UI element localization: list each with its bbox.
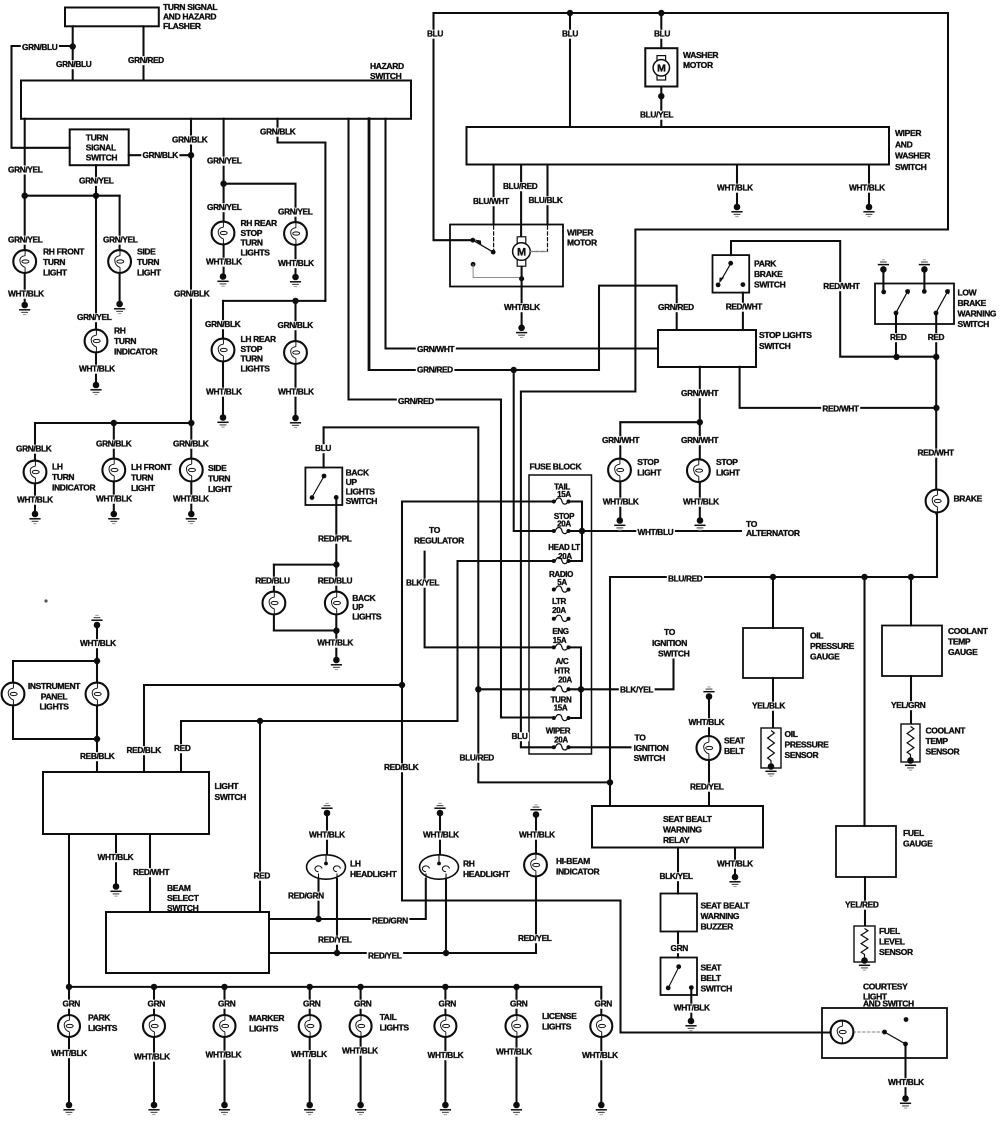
wire BLU/RED rail from brake line — [610, 513, 937, 806]
svg-text:RED/BLK: RED/BLK — [384, 762, 419, 772]
wire ENG-ACHTR-TURN bracket — [569, 647, 582, 718]
svg-text:WHT/BLK: WHT/BLK — [603, 497, 639, 507]
wire hazard to RH rear stop lamp1 — [223, 119, 225, 274]
svg-text:SWITCH: SWITCH — [701, 984, 733, 994]
ground wiper switch 2 — [863, 204, 874, 217]
park brake contact dots — [716, 261, 746, 287]
svg-text:WHT/BLK: WHT/BLK — [278, 387, 314, 397]
wire stop switch GRN/WHT out — [699, 367, 701, 518]
svg-text:LIGHTS: LIGHTS — [88, 1023, 118, 1033]
svg-text:HAZARD: HAZARD — [370, 61, 404, 71]
wire buzzer to seat belt switch GRN — [677, 932, 679, 958]
wire BLU/RED drop to wiper motor — [520, 165, 522, 244]
wiper motor right lead — [530, 251, 547, 253]
wire LH headlight left pin — [317, 879, 319, 919]
label wire label GRN/BLK — [141, 151, 179, 160]
label wire label GRN/RED — [416, 366, 455, 375]
svg-text:LIGHTS: LIGHTS — [39, 702, 69, 712]
wire park/marker/tail/license lamp drop 2 — [153, 987, 155, 1103]
svg-text:WHT/BLK: WHT/BLK — [504, 302, 540, 312]
svg-text:LIGHT: LIGHT — [208, 484, 233, 494]
wiper and washer switch box — [467, 127, 890, 165]
wire GRN/WHT to stop lights switch — [386, 119, 659, 349]
label wire label GRN/RED — [657, 303, 696, 312]
label wire label BLU/RED — [458, 754, 495, 763]
courtesy light and switch box — [822, 1008, 947, 1058]
svg-text:WHT/BLK: WHT/BLK — [80, 638, 116, 648]
label wire label WHT/BLK — [602, 498, 641, 507]
svg-text:RH REAR: RH REAR — [241, 218, 277, 228]
wire TAIL-STOP-HEADLT bracket — [569, 502, 583, 562]
label wire label GRN/WHT — [601, 436, 641, 445]
svg-text:LIGHTS: LIGHTS — [542, 1022, 572, 1032]
backup switch contact dots — [310, 474, 339, 500]
svg-text:INSTRUMENT: INSTRUMENT — [28, 681, 81, 691]
label wire label RED — [889, 333, 908, 342]
fuse A/C HTR 20A — [552, 686, 571, 692]
label wire label BLU — [653, 30, 672, 39]
svg-text:GRN/BLK: GRN/BLK — [16, 444, 52, 454]
stop light lamp 2 — [687, 459, 710, 482]
low brake contact dots — [881, 289, 950, 315]
label wire label WHT/BLK — [95, 495, 134, 504]
svg-text:SIDE: SIDE — [208, 463, 227, 473]
svg-text:SENSOR: SENSOR — [926, 747, 960, 757]
label wire label BLU/WHT — [472, 197, 511, 206]
wire fuel gauge feed — [863, 577, 865, 826]
courtesy lamp — [831, 1021, 854, 1044]
svg-text:GRN: GRN — [303, 999, 321, 1009]
label wire label WHT/BLK — [887, 1078, 926, 1087]
wire hazard to RH front turn — [24, 119, 26, 302]
ground stop light 2 — [694, 517, 705, 530]
seat belt switch diagonal — [670, 969, 678, 986]
park brake arrowhead — [719, 277, 724, 283]
label wire label WHT/BLK — [503, 303, 542, 312]
label wire label YEL/RED — [844, 901, 880, 910]
label wire label RED/BLU — [317, 577, 354, 586]
svg-text:GRN/BLK: GRN/BLK — [205, 319, 241, 329]
label wire label GRN 4 — [302, 1000, 322, 1009]
node backup RED/PPL — [333, 561, 339, 567]
node A/C HTR BLK/YEL — [578, 686, 584, 692]
svg-text:LIGHT: LIGHT — [215, 781, 240, 791]
svg-text:TURN: TURN — [43, 257, 65, 267]
wire backup lamp1 drop — [273, 565, 275, 631]
RH front turn light lamp — [13, 250, 36, 273]
svg-text:RED/WHT: RED/WHT — [918, 448, 955, 458]
courtesy lamp to switch dashed — [853, 1031, 883, 1033]
svg-text:BELT: BELT — [701, 973, 722, 983]
park/marker/tail/license lamp 3 — [214, 1015, 236, 1037]
label wire label GRN/YEL — [277, 208, 314, 217]
seat bealt warning relay box — [592, 806, 763, 848]
svg-text:RED/WHT: RED/WHT — [726, 302, 763, 312]
wire RED/YEL headlight bus — [269, 877, 536, 954]
svg-text:SENSOR: SENSOR — [785, 750, 819, 760]
svg-text:GAUGE: GAUGE — [948, 647, 978, 657]
wire stop light 1 branch — [620, 422, 700, 517]
wire BLK/YEL to ignition switch — [581, 660, 674, 690]
wire A/C HTR fuse left — [478, 688, 554, 690]
svg-text:GRN/WHT: GRN/WHT — [602, 435, 639, 445]
svg-text:WHT/BLK: WHT/BLK — [317, 638, 353, 648]
LH headlight — [307, 855, 346, 879]
ground stop light 1 — [614, 517, 625, 530]
label wire label WHT/BLK — [716, 184, 755, 193]
label wire label WHT/BLK — [848, 184, 887, 193]
svg-text:SWITCH: SWITCH — [346, 496, 378, 506]
fuse ENG 15A — [552, 644, 571, 650]
node STOP fuse WHT/BLU — [579, 528, 585, 534]
svg-text:GRN: GRN — [63, 999, 81, 1009]
brake lamp — [926, 490, 949, 513]
svg-text:TAIL: TAIL — [380, 1012, 397, 1022]
label wire label GRN 7 — [509, 1000, 529, 1009]
wiper motor switch arrowhead — [475, 240, 482, 246]
svg-text:GRN/BLK: GRN/BLK — [278, 320, 314, 330]
low brake switch diagonal 1 — [897, 294, 907, 311]
label wire label BLK/YEL — [658, 872, 694, 881]
wiper motor contact dots — [470, 238, 524, 282]
svg-text:YEL/BLK: YEL/BLK — [752, 701, 785, 711]
wire BLU to washer motor — [660, 13, 662, 48]
svg-text:LH: LH — [350, 859, 361, 869]
low brake switch diagonal 2 — [937, 294, 947, 311]
svg-text:GAUGE: GAUGE — [810, 652, 840, 662]
svg-text:WHT/BLK: WHT/BLK — [206, 387, 242, 397]
wire backup lamps bottom link — [274, 629, 337, 631]
svg-text:RED/WHT: RED/WHT — [133, 867, 170, 877]
svg-text:M: M — [517, 247, 526, 259]
fuel level sensor resistor — [854, 926, 875, 962]
label wire label GRN 3 — [217, 1000, 237, 1009]
label wire label BLU/RED — [667, 575, 704, 584]
wire backup switch out RED/PPL — [335, 500, 337, 659]
svg-text:TURN SIGNAL: TURN SIGNAL — [163, 2, 217, 12]
wire BLU/BLK dash — [532, 226, 548, 252]
label wire label YEL/GRN — [890, 701, 927, 710]
node RH rear branch — [220, 181, 226, 187]
wire GRN/RED to stop lights switch vertical — [368, 119, 371, 370]
svg-text:BELT: BELT — [724, 746, 745, 756]
wire BLU/WHT drop — [493, 165, 495, 225]
svg-text:GRN/RED: GRN/RED — [128, 55, 164, 65]
ground oil pressure sensor — [765, 763, 776, 776]
node backup WHT/BLK — [333, 628, 339, 634]
turn signal and hazard flasher box — [65, 8, 159, 27]
svg-text:LIGHTS: LIGHTS — [241, 364, 271, 374]
svg-text:WIPER: WIPER — [567, 228, 593, 238]
svg-text:GRN: GRN — [671, 943, 689, 953]
svg-text:RED/BLU: RED/BLU — [255, 576, 290, 586]
fuse RADIO 5A — [552, 586, 571, 592]
svg-text:STOP: STOP — [241, 228, 263, 238]
hi-beam indicator lamp — [524, 854, 547, 877]
svg-text:LTR: LTR — [552, 597, 566, 606]
svg-text:HEAD LT: HEAD LT — [548, 543, 580, 552]
wire wiper motor output to ground — [521, 266, 523, 324]
svg-text:GRN/BLK: GRN/BLK — [172, 134, 208, 144]
label wire label GRN/BLU — [21, 43, 59, 52]
svg-text:WHT/BLK: WHT/BLK — [173, 494, 209, 504]
svg-text:LICENSE: LICENSE — [542, 1011, 577, 1021]
label wire label WHT/BLK — [205, 388, 244, 397]
node low brake RED 2 — [933, 354, 939, 360]
ground side turn — [114, 301, 125, 314]
ground LH turn indicator — [29, 511, 40, 524]
label wire label RED/WHT — [132, 868, 171, 877]
node RED/YEL LH pin — [334, 950, 340, 956]
svg-text:TURN: TURN — [86, 133, 108, 143]
svg-text:WHT/BLK: WHT/BLK — [428, 1050, 464, 1060]
svg-text:WARNING: WARNING — [958, 309, 997, 319]
node rail 1 — [66, 984, 72, 990]
svg-text:WHT/BLK: WHT/BLK — [278, 258, 314, 268]
wire turn signal switch GRN/BLK — [129, 154, 191, 156]
RH rear stop turn lamp 1 — [212, 222, 235, 245]
LH rear stop turn lamp 2 — [284, 341, 307, 364]
park/marker/tail/license lamp 2 — [143, 1015, 165, 1037]
label wire label RED/BLK — [383, 763, 420, 772]
svg-text:WIPER: WIPER — [546, 727, 571, 736]
wire GRN/RED branch to STOP fuse — [514, 370, 554, 531]
label wire label BLU/BLK — [527, 196, 564, 205]
node GRN/BLU junction — [70, 43, 76, 49]
inverted ground seat belt — [703, 687, 714, 700]
svg-text:WHT/BLU: WHT/BLU — [638, 527, 674, 537]
svg-text:RED/WHT: RED/WHT — [823, 281, 860, 291]
svg-text:UP: UP — [346, 477, 358, 487]
label wire label RED/WHT — [821, 405, 860, 414]
svg-text:RH FRONT: RH FRONT — [43, 247, 85, 257]
label wire label RED/BLU — [254, 577, 291, 586]
label wire label GRN/YEL — [206, 203, 243, 212]
svg-text:RED/YEL: RED/YEL — [518, 933, 552, 943]
svg-text:OIL: OIL — [810, 631, 823, 641]
node BLU rail 2 — [658, 10, 664, 16]
node LH bus right — [188, 420, 194, 426]
ground RH rear 1 — [217, 273, 228, 286]
svg-text:REGULATOR: REGULATOR — [414, 536, 464, 546]
svg-text:INDICATOR: INDICATOR — [556, 867, 599, 877]
fuse TAIL 15A — [552, 498, 571, 504]
park/marker/tail/license lamp 4 — [299, 1015, 321, 1037]
label wire label RED — [173, 744, 192, 753]
svg-text:GRN/YEL: GRN/YEL — [8, 235, 43, 245]
wire BLU main net — [434, 13, 949, 747]
label wire label BLU — [314, 444, 333, 453]
label wire label WHT/BLK — [518, 831, 557, 840]
svg-text:TURN: TURN — [52, 472, 74, 482]
wire LH lamps bus — [35, 422, 191, 424]
svg-text:WHT/BLK: WHT/BLK — [849, 183, 885, 193]
wire GRN/BLK hazard drop — [190, 119, 192, 423]
svg-text:RELAY: RELAY — [663, 835, 690, 845]
ground RH turn indicator — [90, 382, 101, 395]
fuse block box — [529, 475, 592, 754]
label wire label RED/WHT — [822, 282, 861, 291]
svg-text:WHT/BLK: WHT/BLK — [8, 289, 44, 299]
label wire label GRN/YEL — [76, 313, 113, 322]
svg-text:BRAKE: BRAKE — [954, 494, 983, 504]
park/marker/tail/license lamp 1 — [58, 1015, 80, 1037]
svg-text:GRN/BLK: GRN/BLK — [96, 439, 132, 449]
svg-text:WHT/BLK: WHT/BLK — [309, 830, 345, 840]
wire oil gauge feed — [772, 577, 774, 628]
svg-text:WIPER: WIPER — [895, 128, 921, 138]
label wire label WHT/BLK — [422, 831, 461, 840]
svg-text:WHT/BLK: WHT/BLK — [51, 1048, 87, 1058]
wire lamp rail — [69, 987, 601, 1103]
ground bottom lamp 8 — [596, 1102, 607, 1115]
svg-text:SEAT: SEAT — [724, 736, 746, 746]
svg-text:HI-BEAM: HI-BEAM — [556, 856, 590, 866]
svg-text:INDICATOR: INDICATOR — [52, 483, 95, 493]
svg-text:WHT/BLK: WHT/BLK — [674, 1003, 710, 1013]
svg-text:WHT/BLK: WHT/BLK — [717, 859, 753, 869]
park brake switch diagonal — [722, 265, 731, 280]
fuse LTR 20A — [552, 615, 571, 621]
node low brake RED 1 — [893, 354, 899, 360]
wire instrument panel loop — [13, 661, 97, 739]
label wire label GRN/BLK — [15, 445, 53, 454]
svg-text:RED/GRN: RED/GRN — [372, 916, 408, 926]
svg-text:WHT/BLK: WHT/BLK — [79, 364, 115, 374]
svg-text:COOLANT: COOLANT — [926, 726, 967, 736]
wire low brake RED out 2 to brake lamp — [935, 313, 937, 514]
label wire label RED/GRN — [287, 892, 326, 901]
low brake warning switch box — [875, 284, 954, 325]
svg-text:TO: TO — [429, 525, 441, 535]
wire seat belt switch to ground — [690, 988, 692, 1019]
svg-text:BLU: BLU — [654, 29, 670, 39]
label wire label YEL/BLK — [751, 702, 787, 711]
ground wiper switch 1 — [731, 204, 742, 217]
svg-text:LEVEL: LEVEL — [879, 937, 905, 947]
svg-text:STOP: STOP — [716, 457, 738, 467]
svg-text:RED/BLU: RED/BLU — [318, 576, 353, 586]
label wire label WHT/BLK — [78, 365, 117, 374]
wire flasher left lead — [72, 26, 74, 80]
park/marker/tail/license lamp 7 — [506, 1015, 528, 1037]
svg-text:HEADLIGHT: HEADLIGHT — [350, 869, 398, 879]
svg-text:ALTERNATOR: ALTERNATOR — [746, 528, 800, 538]
label wire label BLU/YEL — [639, 111, 675, 120]
label wire label WHT/BLK — [673, 1004, 712, 1013]
svg-text:UP: UP — [352, 602, 364, 612]
wire side turn light drop — [119, 196, 121, 301]
svg-text:TEMP: TEMP — [926, 736, 949, 746]
park/marker/tail/license lamp 5 — [350, 1015, 372, 1037]
wire coolant gauge to sensor YEL/GRN — [910, 676, 912, 726]
svg-text:GAUGE: GAUGE — [903, 839, 933, 849]
svg-text:SIDE: SIDE — [137, 247, 156, 257]
svg-text:WHT/BLK: WHT/BLK — [206, 257, 242, 267]
label wire label WHT/BLK — [96, 853, 135, 862]
park brake switch box — [713, 255, 750, 293]
label wire label GRN/BLK — [276, 321, 314, 330]
svg-text:WHT/BLK: WHT/BLK — [717, 183, 753, 193]
wire park brake to stop switch RED/WHT — [742, 293, 744, 330]
svg-text:STOP LIGHTS: STOP LIGHTS — [759, 330, 812, 340]
svg-text:GRN: GRN — [510, 999, 528, 1009]
park/marker/tail/license lamp 6 — [434, 1015, 456, 1037]
wire park/marker/tail/license lamp drop 3 — [223, 987, 225, 1103]
svg-text:WHT/BLK: WHT/BLK — [496, 1047, 532, 1057]
wire WHT/BLK wiper switch ground 1 — [736, 165, 738, 204]
svg-text:GRN/YEL: GRN/YEL — [77, 312, 112, 322]
svg-text:WARNING: WARNING — [663, 825, 702, 835]
svg-text:RED: RED — [890, 332, 907, 342]
svg-text:RED: RED — [174, 743, 191, 753]
wire oil gauge to sensor YEL/BLK — [772, 678, 774, 730]
wire TO REGULATOR to ENG fuse — [425, 552, 554, 648]
svg-text:COOLANT: COOLANT — [948, 626, 989, 636]
wire low brake ground lead 2 — [923, 271, 925, 291]
wire TAIL net to courtesy light — [402, 502, 832, 1033]
svg-text:RED/GRN: RED/GRN — [288, 891, 324, 901]
svg-text:INDICATOR: INDICATOR — [114, 347, 157, 357]
seat bealt warning buzzer box — [661, 894, 698, 932]
svg-text:GRN/WHT: GRN/WHT — [681, 435, 718, 445]
ground back up lights — [331, 657, 342, 670]
label wire label WHT/BLK — [277, 388, 316, 397]
svg-text:GRN/RED: GRN/RED — [398, 396, 434, 406]
ground bottom lamp 6 — [440, 1102, 451, 1115]
side turn light 2 lamp — [180, 459, 203, 482]
svg-text:LIGHT: LIGHT — [131, 483, 156, 493]
label wire label RED/PPL — [317, 535, 353, 544]
label wire label GRN 6 — [437, 1000, 457, 1009]
park/marker/tail/license lamp 8 — [590, 1015, 612, 1037]
backup switch diagonal — [313, 478, 323, 495]
svg-text:TURN: TURN — [241, 354, 263, 364]
svg-text:BLU/WHT: BLU/WHT — [473, 196, 509, 206]
svg-text:LIGHTS: LIGHTS — [346, 487, 376, 497]
node instrument bottom — [94, 736, 100, 742]
ground fuel level sensor — [859, 957, 870, 970]
wire instrument panel feed — [96, 627, 98, 772]
hazard switch box — [21, 81, 411, 119]
ground coolant temp sensor — [905, 757, 916, 770]
svg-text:20A: 20A — [552, 606, 566, 615]
wire LH turn indicator drop — [34, 423, 36, 511]
inverted ground low brake 2 — [919, 260, 930, 273]
wire RED drop to beam select switch — [259, 721, 261, 912]
svg-text:GRN/WHT: GRN/WHT — [681, 388, 718, 398]
inverted ground instrument panel — [91, 615, 102, 628]
inverted ground low brake 1 — [878, 260, 889, 273]
stop light lamp 1 — [608, 459, 631, 482]
svg-text:WHT/BLK: WHT/BLK — [519, 830, 555, 840]
ground bottom lamp 5 — [355, 1102, 366, 1115]
wire RED/BLK branch to light switch — [144, 685, 402, 772]
wire light switch RED/WHT to beam select — [149, 834, 151, 912]
node instrument top — [94, 658, 100, 664]
label wire label WHT/BLK — [426, 1051, 465, 1060]
svg-text:LIGHT: LIGHT — [43, 268, 68, 278]
svg-text:SWITCH: SWITCH — [215, 792, 247, 802]
ground bottom lamp 4 — [304, 1102, 315, 1115]
label wire label WHT/BLK — [79, 639, 118, 648]
node BLU/RED fuel gauge — [861, 574, 867, 580]
label wire label WHT/BLK — [205, 258, 244, 267]
svg-text:MOTOR: MOTOR — [567, 238, 597, 248]
wire BLU to wiper washer switch — [569, 13, 571, 127]
turn signal switch box — [70, 129, 129, 165]
svg-text:GRN/BLU: GRN/BLU — [56, 59, 92, 69]
